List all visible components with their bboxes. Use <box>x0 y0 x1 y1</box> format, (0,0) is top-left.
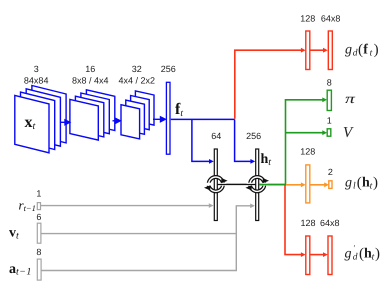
red wire up to g_d <box>235 50 302 119</box>
input rect r <box>37 203 40 210</box>
svg-text:π: π <box>345 91 357 106</box>
blue main wire from f_t <box>171 118 235 120</box>
svg-text:gl(ht): gl(ht) <box>345 175 378 192</box>
svg-text:128: 128 <box>300 218 315 228</box>
svg-text:rt−1: rt−1 <box>19 197 36 213</box>
conv stack 2 <box>70 90 115 140</box>
svg-text:8x8 / 4x4: 8x8 / 4x4 <box>72 76 109 86</box>
wire branch to LSTM1 <box>192 119 210 161</box>
svg-text:gd(ft): gd(ft) <box>345 42 379 59</box>
gray wire a <box>42 234 237 271</box>
g_d rect 128 <box>306 31 310 70</box>
svg-text:16: 16 <box>85 64 95 74</box>
black connector redrawn over icon gaps <box>217 184 256 186</box>
svg-text:64: 64 <box>211 131 221 141</box>
svg-text:vt: vt <box>9 225 19 241</box>
svg-text:3: 3 <box>34 64 39 74</box>
gray wire v <box>41 206 251 234</box>
g_l rect 128 <box>306 165 310 203</box>
svg-text:256: 256 <box>246 131 261 141</box>
g'_d rect 128 <box>306 236 310 275</box>
pi rect <box>327 90 331 110</box>
svg-text:128: 128 <box>300 14 315 24</box>
svg-text:ht: ht <box>261 152 272 168</box>
recurrence icon LSTM2 <box>245 177 269 191</box>
LSTM2 rect <box>256 149 259 221</box>
black connector between LSTMs <box>224 183 250 185</box>
svg-text:84x84: 84x84 <box>24 76 49 86</box>
arrow stack3 to f_t <box>153 117 165 122</box>
sheet 1 front <box>15 95 49 152</box>
sheet 2 <box>21 92 55 149</box>
red arrow between g_d rects <box>310 49 324 51</box>
svg-text:32: 32 <box>132 64 142 74</box>
wire branch to LSTM2 <box>235 119 251 161</box>
g_d rect 64x8 <box>328 31 332 70</box>
svg-text:64x8: 64x8 <box>321 14 341 24</box>
svg-text:4x4 / 2x2: 4x4 / 2x2 <box>119 76 156 86</box>
svg-text:ft: ft <box>175 101 183 119</box>
g_l small rect 2 <box>329 181 332 189</box>
conv stack 1 (input x_t) <box>15 86 66 153</box>
V rect <box>327 129 331 136</box>
conv stack 3 <box>121 91 154 139</box>
arrow stack2 to stack3 <box>113 118 121 123</box>
input rect a <box>37 259 41 280</box>
arrow stack1 to stack2 <box>61 120 70 125</box>
svg-text:at−1: at−1 <box>9 262 32 278</box>
sheet 3 <box>26 89 60 146</box>
orange wire to g_l <box>286 184 302 186</box>
svg-text:1: 1 <box>327 116 332 126</box>
svg-text:64x8: 64x8 <box>320 218 340 228</box>
gray wire r <box>41 205 210 207</box>
green wire to V <box>286 132 323 134</box>
red wire down to g'_d <box>285 185 301 255</box>
recurrence icon LSTM1 <box>204 177 228 191</box>
svg-text:8: 8 <box>327 78 332 88</box>
g'_d rect 64x8 <box>328 236 332 275</box>
svg-text:1: 1 <box>36 189 41 199</box>
input rect v <box>37 223 41 243</box>
svg-text:2: 2 <box>328 167 333 177</box>
f_t feature rectangle <box>166 82 170 154</box>
sheet 4 <box>32 86 66 143</box>
green segment redrawn over icon gap <box>259 184 286 186</box>
svg-text:8: 8 <box>36 247 41 257</box>
svg-text:256: 256 <box>161 64 176 74</box>
svg-text:6: 6 <box>36 212 41 222</box>
svg-text:V: V <box>343 125 354 141</box>
svg-text:128: 128 <box>300 147 315 157</box>
green wire to pi/V <box>259 100 323 185</box>
svg-text:g′d(ht): g′d(ht) <box>345 244 381 263</box>
LSTM1 rect <box>214 149 217 221</box>
